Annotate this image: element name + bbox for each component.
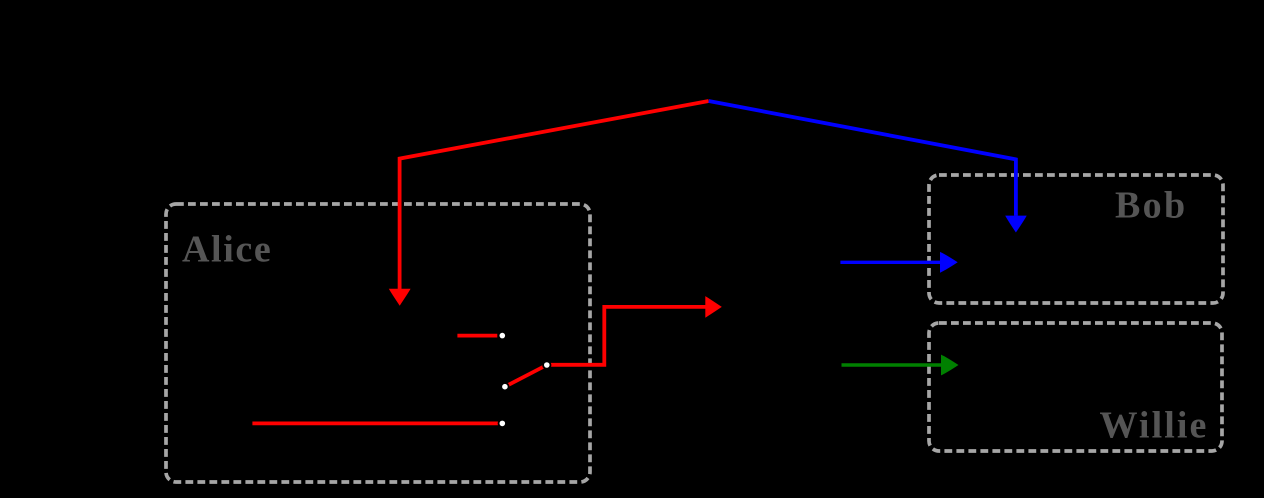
wire red switch output to arrow [547,307,706,365]
switch S1 lower contact wire [252,421,498,425]
switch S1 arm [505,365,547,387]
arrowhead red right (switch output) [705,296,722,318]
node switch pivot [543,361,550,368]
box Willie [929,323,1222,451]
box Bob [929,175,1223,303]
wire green arrow to Willie [842,363,942,366]
wire blue source to Bob (polyline with down arrow) [709,101,1016,216]
svg-text:Willie: Willie [1100,405,1209,447]
node upper contact [499,332,506,339]
node lower contact [499,420,506,427]
arrowhead green right into Willie [941,355,959,376]
svg-text:Bob: Bob [1115,185,1187,227]
switch S1 upper contact segment [457,334,497,338]
wire red source to Alice (polyline with down arrow) [400,101,709,289]
arrowhead blue right into Bob [940,252,958,273]
wire blue arrow to Bob [840,261,940,264]
arrowhead blue down into Bob [1005,216,1026,233]
arrowhead red down into Alice [389,289,411,306]
node arm tip [501,383,508,390]
box Alice [166,204,590,482]
svg-text:Alice: Alice [182,228,272,270]
